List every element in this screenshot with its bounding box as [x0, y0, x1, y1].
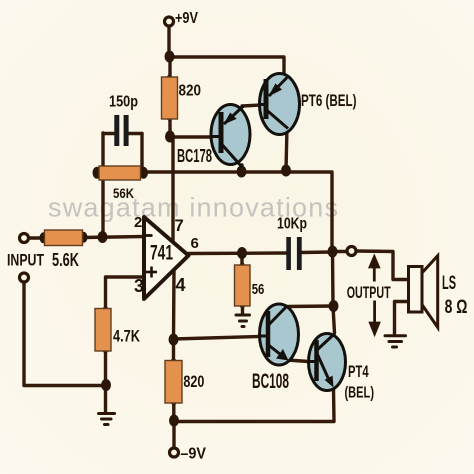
- node BC178 collector: [237, 166, 247, 178]
- svg-text:820: 820: [183, 373, 204, 391]
- ground (input net): [99, 414, 115, 425]
- transistor BC108: [260, 304, 299, 365]
- svg-text:(BEL): (BEL): [345, 385, 375, 402]
- node pin2: [98, 231, 108, 243]
- svg-text:5.6K: 5.6K: [52, 250, 79, 270]
- resistor R820 bottom end nubs: [170, 358, 176, 366]
- node pin7/820/BC178 base: [165, 131, 175, 143]
- transistor PT4: [309, 334, 346, 391]
- wire out terminal to speaker top: [356, 251, 409, 280]
- svg-text:741: 741: [150, 242, 173, 265]
- resistor 5.6K: [45, 230, 83, 246]
- wire BC178 emitter to PT6 base: [242, 105, 261, 106]
- node pin6/56R: [237, 247, 247, 259]
- svg-text:PT4: PT4: [348, 362, 369, 381]
- wire R820b bottom to node: [172, 403, 175, 420]
- wire 150p left horizontal: [103, 132, 115, 135]
- terminal OUTPUT: [347, 247, 356, 256]
- wire input2 to ground net: [24, 282, 106, 386]
- wire node to -9V terminal: [172, 420, 175, 448]
- wire pin4 node to BC108 base: [174, 337, 261, 340]
- resistor 4.7K: [95, 309, 111, 352]
- transistor PT6: [260, 74, 300, 135]
- svg-text:INPUT: INPUT: [7, 252, 44, 270]
- resistor 56: [235, 265, 251, 306]
- svg-text:BC178: BC178: [177, 146, 212, 166]
- wire BC108 collector to node: [287, 304, 335, 308]
- node output corner: [328, 246, 338, 258]
- wire +9V stub: [167, 26, 170, 56]
- wire 150p left vertical: [101, 133, 104, 237]
- wire 4.7K bottom: [104, 351, 107, 412]
- svg-text:6: 6: [191, 235, 199, 252]
- svg-text:150p: 150p: [109, 94, 138, 111]
- wire BC178 collector down: [240, 165, 244, 171]
- node bottom rail: [169, 415, 179, 427]
- resistor R820 bottom: [165, 361, 182, 404]
- svg-text:4: 4: [176, 275, 186, 295]
- svg-text:BC108: BC108: [252, 370, 289, 393]
- wire PT6 collector down: [286, 127, 287, 170]
- svg-text:+9V: +9V: [175, 10, 198, 27]
- capacitor 10Kp plates: [286, 237, 301, 270]
- resistor R820 top end nubs: [166, 75, 172, 83]
- svg-text:8 Ω: 8 Ω: [445, 297, 468, 318]
- ground (56R): [236, 315, 250, 327]
- resistor 5.6K end caps: [40, 232, 48, 243]
- wire pin3: [106, 277, 145, 309]
- svg-text:56: 56: [252, 281, 265, 298]
- wire pin7 vertical: [171, 137, 174, 242]
- resistor 56K end caps: [93, 167, 102, 179]
- resistor 56K: [99, 166, 141, 180]
- node +9V rail: [165, 51, 175, 63]
- terminal INPUT 1: [20, 234, 29, 243]
- svg-text:56K: 56K: [113, 185, 134, 201]
- wire feedback line: [103, 172, 332, 252]
- wire +9V rail top: [169, 57, 284, 77]
- node 4.7K bottom: [101, 379, 111, 391]
- svg-text:2: 2: [134, 214, 142, 231]
- speaker LS: [409, 256, 438, 328]
- wire 150p right horizontal: [129, 132, 143, 135]
- wire 56R stub: [240, 253, 243, 266]
- ground (speaker): [385, 336, 406, 347]
- wire pin4 vertical: [172, 269, 176, 340]
- wire junction to R820 top: [168, 57, 171, 78]
- node BC108 collector: [329, 300, 339, 312]
- svg-text:7: 7: [175, 217, 184, 235]
- terminal +9V: [165, 17, 174, 26]
- wire output line pin6: [189, 251, 287, 255]
- capacitor 150p plates: [114, 115, 128, 146]
- wire BC108 emitter to PT4 base: [287, 360, 309, 362]
- svg-text:10Kp: 10Kp: [277, 216, 307, 233]
- wire 150p right vertical: [140, 134, 143, 172]
- wire R5.6K to pin2: [83, 237, 144, 238]
- terminal -9V: [170, 448, 179, 457]
- transistor BC178: [211, 105, 250, 168]
- wire speaker bottom: [395, 302, 409, 335]
- op-amp U1 741: [144, 217, 189, 299]
- resistor 4.7K end nubs: [102, 306, 108, 314]
- svg-text:OUTPUT: OUTPUT: [347, 284, 391, 302]
- wire R820 bottom to node: [168, 119, 171, 136]
- svg-text:PT6 (BEL): PT6 (BEL): [301, 91, 357, 110]
- wire cap right to corner: [302, 250, 333, 254]
- arrow down: [370, 301, 378, 334]
- svg-text:4.7K: 4.7K: [113, 327, 141, 346]
- node PT6 collector: [281, 165, 291, 177]
- wire bottom rail: [174, 388, 334, 422]
- node pin4/BC108 base: [169, 334, 179, 346]
- svg-text:LS: LS: [442, 273, 456, 294]
- resistor R820 top: [162, 77, 178, 119]
- terminal INPUT 2: [20, 273, 29, 282]
- op-amp minus sign: [145, 234, 153, 237]
- arrow up: [370, 257, 378, 282]
- wire input1 to R5.6K: [29, 236, 46, 239]
- wire node to R820b top: [172, 340, 175, 361]
- resistor 56 end nubs: [239, 263, 245, 271]
- wire node to BC178 base: [170, 135, 212, 138]
- wire 56R ground stub: [241, 306, 244, 313]
- svg-text:–9V: –9V: [180, 446, 206, 463]
- svg-text:820: 820: [179, 83, 202, 100]
- wire output node vertical: [333, 252, 335, 333]
- op-amp plus sign: [146, 267, 157, 278]
- svg-text:3: 3: [134, 276, 144, 296]
- wire corner to out terminal: [336, 250, 347, 253]
